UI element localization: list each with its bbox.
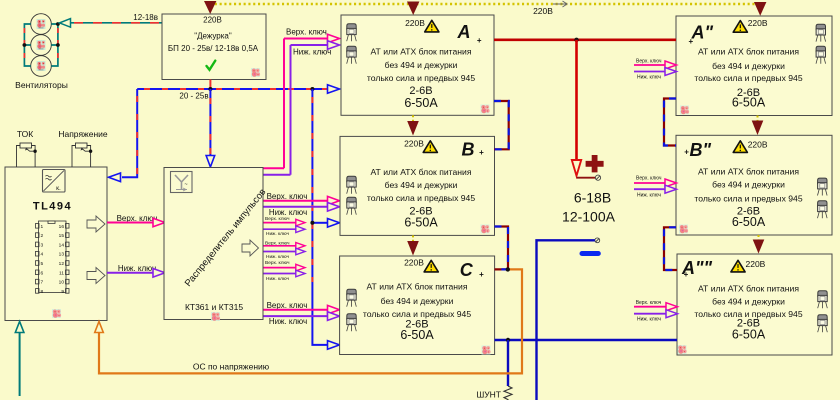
svg-text:+: + <box>479 148 484 157</box>
node block arrow lower <box>87 268 105 284</box>
component DIP16 IC <box>36 221 70 293</box>
wire key inputs A2 <box>634 59 677 81</box>
wire loop B2 to A4 <box>664 227 677 270</box>
svg-text:220В: 220В <box>748 139 768 149</box>
svg-text:12-18в: 12-18в <box>133 13 158 22</box>
svg-text:16: 16 <box>59 224 65 230</box>
svg-text:10: 10 <box>59 280 65 286</box>
svg-text:без 494 и дежурки: без 494 и дежурки <box>385 60 458 70</box>
svg-text:13: 13 <box>59 252 65 258</box>
svg-text:Верх. ключ: Верх. ключ <box>636 300 662 306</box>
svg-text:Ниж. ключ: Ниж. ключ <box>266 231 289 237</box>
wire blue arrow into B <box>312 222 327 224</box>
svg-text:Верх. ключ: Верх. ключ <box>265 216 290 222</box>
node junction fan left <box>23 43 27 47</box>
svg-text:только сила и предвых 945: только сила и предвых 945 <box>367 193 475 203</box>
node negative terminal circle <box>595 238 600 243</box>
svg-text:12: 12 <box>59 261 65 267</box>
svg-text:Напряжение: Напряжение <box>58 129 108 139</box>
resistor shunt <box>504 386 512 400</box>
svg-text:220В: 220В <box>533 6 553 16</box>
node plus symbol <box>586 155 604 172</box>
node block arrow upper <box>87 216 105 232</box>
wire 220V drop arrow into block A <box>407 2 419 16</box>
component potentiometer TOK <box>17 129 37 167</box>
wire shunt drop <box>507 340 509 386</box>
svg-text:+: + <box>684 270 689 279</box>
node junction fan right mid <box>56 43 60 47</box>
svg-text:к.: к. <box>56 185 61 192</box>
wire fan left rail <box>24 24 30 66</box>
wire positive bus A to A2 <box>494 38 676 41</box>
svg-text:Ниж. ключ: Ниж. ключ <box>266 254 289 260</box>
wire key inputs A4 <box>634 300 678 323</box>
wire dist stub pair 3 lower <box>264 273 297 275</box>
block C PSU <box>340 256 495 355</box>
node junction fan right top <box>56 22 60 26</box>
node positive terminal circle <box>595 175 600 180</box>
svg-text:Ниж. ключ: Ниж. ключ <box>637 317 661 323</box>
svg-text:без 494 и дежурки: без 494 и дежурки <box>381 296 454 306</box>
node arrowhead into TL494 right <box>109 173 121 182</box>
svg-text:без 494 и дежурки: без 494 и дежурки <box>712 179 785 189</box>
svg-text:3: 3 <box>41 242 44 248</box>
svg-text:только сила и предвых 945: только сила и предвых 945 <box>367 73 475 83</box>
svg-text:6-18В: 6-18В <box>574 190 611 206</box>
svg-text:220В: 220В <box>404 257 424 267</box>
svg-text:Ниж. ключ: Ниж. ключ <box>269 208 307 217</box>
svg-text:6-50А: 6-50А <box>732 215 766 229</box>
svg-text:+: + <box>477 36 482 45</box>
wire 220V link A2 to B2 <box>757 116 759 122</box>
block A2 PSU <box>676 16 832 116</box>
svg-text:АТ или АТХ блок питания: АТ или АТХ блок питания <box>367 282 468 292</box>
wire 220V link B to C <box>412 235 414 242</box>
wire dist out A lower <box>264 174 291 176</box>
node junction bus right branch <box>310 87 314 91</box>
node icon distributor <box>211 312 220 321</box>
node green check <box>207 61 216 70</box>
svg-text:"Дежурка": "Дежурка" <box>194 32 232 41</box>
wire dist out A upper (up & right) <box>264 167 285 169</box>
wire feedback teal into TL494 bottom <box>19 333 21 396</box>
svg-text:~: ~ <box>184 182 187 188</box>
svg-text:11: 11 <box>59 270 64 276</box>
svg-text:5: 5 <box>41 261 44 267</box>
wire negative down <box>537 240 595 400</box>
svg-text:220В: 220В <box>203 16 222 25</box>
block pulse distributor <box>164 168 263 320</box>
wire loop A2 to B2 <box>664 99 676 146</box>
wire 12-18v feed to fans <box>70 22 162 24</box>
wire feedback orange arrow into TL494 bottom <box>95 322 104 333</box>
svg-text:без 494 и дежурки: без 494 и дежурки <box>712 61 785 71</box>
svg-text:220В: 220В <box>404 139 424 149</box>
svg-text:Вентиляторы: Вентиляторы <box>15 80 68 90</box>
block B2 PSU <box>676 135 832 235</box>
wire dist out C lower <box>264 315 328 317</box>
node direction arrow on 220V bus <box>553 1 567 7</box>
svg-text:Верх. ключ: Верх. ключ <box>636 59 662 65</box>
wire dist stub pair 1 lower <box>264 228 297 230</box>
node distributor icon <box>171 172 193 193</box>
block A4 PSU <box>677 254 832 355</box>
node block arrow distributor <box>242 240 259 256</box>
svg-text:АТ или АТХ блок питания: АТ или АТХ блок питания <box>371 167 472 177</box>
svg-text:2: 2 <box>41 233 44 239</box>
wire loop B to C <box>495 227 509 270</box>
svg-text:ТОК: ТОК <box>17 129 33 139</box>
svg-text:220В: 220В <box>405 18 425 28</box>
node arrowhead 20-25v into block A <box>328 85 340 94</box>
svg-text:6-50А: 6-50А <box>404 216 438 230</box>
svg-text:Верх. ключ: Верх. ключ <box>267 301 308 310</box>
svg-text:+: + <box>479 270 484 279</box>
node minus symbol <box>582 251 598 256</box>
wire 220V drop arrow into standby PSU <box>204 1 216 14</box>
svg-text:БП 20 - 25в/ 12-18в 0,5А: БП 20 - 25в/ 12-18в 0,5А <box>168 44 259 53</box>
wire positive drop <box>575 40 578 159</box>
node arrowhead into fans <box>60 19 71 28</box>
svg-text:20 - 25в: 20 - 25в <box>179 92 208 101</box>
svg-text:220В: 220В <box>748 18 768 28</box>
svg-text:без 494 и дежурки: без 494 и дежурки <box>385 180 458 190</box>
svg-text:+: + <box>688 37 693 46</box>
svg-text:A": A" <box>691 22 714 42</box>
fan M2 <box>31 35 52 56</box>
node arrowhead into C <box>328 341 340 350</box>
svg-text:Верх. ключ: Верх. ключ <box>267 192 308 201</box>
svg-text:АТ или АТХ блок питания: АТ или АТХ блок питания <box>698 46 799 56</box>
svg-text:12-100А: 12-100А <box>562 209 616 225</box>
svg-text:АТ или АТХ блок питания: АТ или АТХ блок питания <box>698 166 799 176</box>
svg-text:B": B" <box>690 140 712 160</box>
svg-text:220В: 220В <box>746 259 766 269</box>
node arrowhead into distributor top <box>206 156 215 168</box>
node junction shunt <box>506 338 510 342</box>
svg-text:7: 7 <box>41 280 44 286</box>
svg-text:6-50А: 6-50А <box>400 328 434 342</box>
wire negative bus C to A4 <box>495 339 678 342</box>
svg-text:6-50А: 6-50А <box>732 96 766 110</box>
wire 220V link B2 to A4 <box>758 235 760 241</box>
svg-text:АТ или АТХ блок питания: АТ или АТХ блок питания <box>698 284 799 294</box>
wire 20-25v bus horizontal <box>137 88 338 90</box>
svg-text:КТ361 и КТ315: КТ361 и КТ315 <box>185 302 243 312</box>
svg-text:без 494 и дежурки: без 494 и дежурки <box>712 297 785 307</box>
svg-text:TL494: TL494 <box>33 201 72 213</box>
svg-text:Ниж. ключ: Ниж. ключ <box>293 48 331 57</box>
svg-text:4: 4 <box>41 252 44 258</box>
svg-text:ОС по напряжению: ОС по напряжению <box>193 362 270 372</box>
node icon TL494 <box>52 309 61 318</box>
wire voltage feedback orange <box>99 269 522 373</box>
svg-text:B: B <box>462 140 475 160</box>
svg-text:6-50А: 6-50А <box>732 327 766 341</box>
wire standby output stub red <box>209 80 211 90</box>
svg-text:Ниж. ключ: Ниж. ключ <box>637 75 661 81</box>
svg-text:15: 15 <box>59 233 65 239</box>
node junction feedback <box>506 267 510 271</box>
svg-text:1: 1 <box>41 224 44 230</box>
wire key inputs B2 <box>634 176 677 199</box>
wire branch right vertical to B and C <box>312 89 338 345</box>
block TL494 controller <box>5 167 107 321</box>
node AC/DC icon <box>43 170 66 193</box>
wire fan right rail <box>51 24 58 66</box>
wire loop A to B <box>494 101 509 149</box>
block standby PSU <box>162 14 266 80</box>
wire 220V drop arrow into block A2 <box>754 2 766 16</box>
node open arrow positive <box>572 160 581 176</box>
svg-text:Ниж. ключ: Ниж. ключ <box>637 193 661 199</box>
svg-text:8: 8 <box>41 289 44 295</box>
fan M3 <box>31 56 52 77</box>
svg-text:+: + <box>684 148 689 157</box>
svg-text:только сила и предвых 945: только сила и предвых 945 <box>694 194 802 204</box>
svg-text:9: 9 <box>61 289 64 295</box>
node junction positive <box>574 38 578 42</box>
wire 220V yellow dotted top bus <box>210 3 761 5</box>
svg-text:Ниж. ключ: Ниж. ключ <box>266 276 289 282</box>
svg-text:6: 6 <box>41 270 44 276</box>
svg-text:АТ или АТХ блок питания: АТ или АТХ блок питания <box>371 46 472 56</box>
svg-text:Верх. ключ: Верх. ключ <box>286 28 327 37</box>
wire dist out B lower <box>264 206 328 208</box>
node icon standby <box>251 68 260 77</box>
svg-text:только сила и предвых 945: только сила и предвых 945 <box>694 73 802 83</box>
block A PSU <box>341 15 494 115</box>
svg-text:Верх. ключ: Верх. ключ <box>636 176 662 182</box>
wire branch to TL494 <box>122 89 137 177</box>
svg-text:Ниж. ключ: Ниж. ключ <box>269 317 307 326</box>
svg-text:C: C <box>460 260 474 280</box>
wire dist stub pair 2 lower <box>264 251 297 253</box>
fan M1 <box>31 14 52 35</box>
svg-text:Ниж. ключ: Ниж. ключ <box>118 264 156 273</box>
svg-text:Верх. ключ: Верх. ключ <box>265 260 290 266</box>
block B PSU <box>340 136 495 235</box>
wire branch to distributor <box>209 89 211 155</box>
node junction bus at standby <box>208 87 212 91</box>
svg-text:14: 14 <box>59 242 65 248</box>
wire 220V link A to B <box>412 115 414 122</box>
component potentiometer Voltage <box>58 129 108 167</box>
svg-text:6-50А: 6-50А <box>404 96 438 110</box>
svg-text:A: A <box>457 22 471 42</box>
svg-text:ШУНТ: ШУНТ <box>476 390 501 400</box>
